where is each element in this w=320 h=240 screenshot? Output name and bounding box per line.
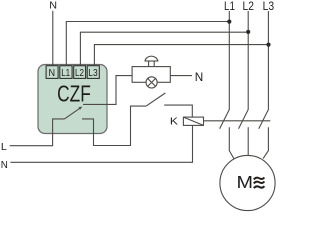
linkage line from coil K to contacts (204, 120, 271, 122)
terminal L2 (74, 66, 86, 79)
wire N label to terminal N (52, 11, 54, 66)
coil K bottom to N line (10, 125, 192, 162)
lamp circle (146, 77, 157, 88)
bell stem (149, 61, 155, 67)
internal contact right terminal, down and to switch (82, 106, 146, 145)
bell-lamp branch rectangle (132, 67, 170, 83)
device CZF box (38, 65, 107, 134)
wire terminal L3 to phase L3 (94, 45, 268, 66)
lamp right wire to N (170, 75, 192, 77)
wire phase L1 vertical upper (228, 11, 230, 109)
terminal L3 (87, 66, 99, 79)
svg-text:L: L (1, 142, 7, 153)
internal contact blade (64, 108, 79, 119)
wire phase L1 lower to motor (229, 127, 234, 158)
wire L input to internal contact (10, 119, 65, 146)
contact K1 blade (220, 109, 230, 129)
svg-text:N: N (195, 70, 204, 84)
svg-text:L1: L1 (61, 67, 70, 79)
terminal L1 (60, 66, 72, 79)
node L3 junction dot (266, 43, 270, 47)
svg-text:L2: L2 (75, 67, 84, 79)
node L2 junction dot (246, 30, 250, 34)
node L1 junction dot (227, 20, 231, 24)
internal contact output to lamp (83, 76, 132, 105)
wire phase L3 vertical upper (267, 11, 269, 109)
svg-text:K: K (170, 117, 178, 128)
internal contact arrowhead (79, 107, 83, 110)
external switch blade (146, 93, 165, 106)
svg-text:L1: L1 (224, 0, 235, 13)
wire phase L2 lower to motor (247, 127, 249, 156)
motor AC tilde 1 (254, 178, 265, 180)
wire phase L3 lower to motor (263, 127, 268, 158)
svg-text:N: N (49, 0, 57, 11)
motor AC tilde 2 (254, 182, 265, 184)
relay coil K diagonal (183, 117, 203, 125)
wire phase L2 vertical upper (247, 11, 249, 109)
motor AC tilde 3 (254, 186, 265, 188)
contact K3 blade (259, 109, 269, 129)
svg-text:CZF: CZF (57, 80, 91, 106)
lamp cross (148, 78, 156, 86)
bell dome (145, 56, 158, 61)
wire terminal L1 to phase L1 (66, 22, 229, 66)
external switch right to coil K top (164, 105, 192, 117)
wire terminal L2 to phase L2 (80, 32, 248, 65)
svg-text:M: M (237, 172, 254, 192)
svg-text:L3: L3 (88, 67, 98, 79)
svg-text:N: N (1, 160, 8, 171)
motor circle M (220, 155, 275, 210)
contact K2 blade (239, 109, 249, 129)
bell base (145, 60, 159, 62)
terminal N (46, 66, 58, 79)
svg-text:L2: L2 (243, 0, 255, 13)
svg-text:N: N (49, 67, 56, 79)
svg-text:L3: L3 (263, 0, 275, 13)
relay coil K (183, 117, 203, 125)
